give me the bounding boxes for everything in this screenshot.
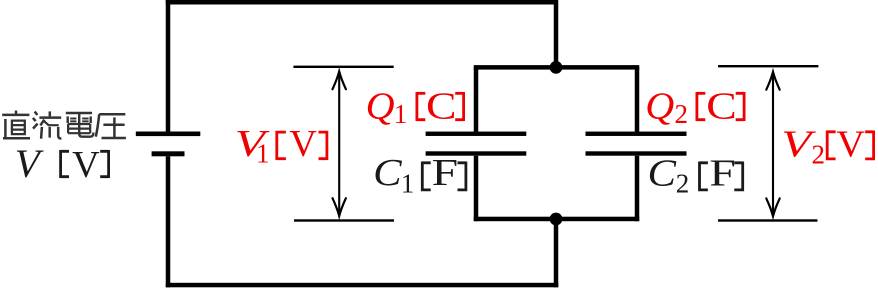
V1 arrowhead up	[333, 71, 346, 89]
capacitor C1 top plate	[426, 132, 527, 136]
bracket ] of V1[V]	[319, 131, 327, 160]
wire left upper (battery to top rail)	[166, 0, 171, 132]
bracket ] of C1[F]	[458, 162, 466, 192]
V1 arrowhead down	[333, 198, 346, 216]
svg-text:1: 1	[256, 139, 270, 169]
node A junction dot (top)	[550, 61, 563, 74]
wire bottom drop (node B to bottom rail)	[554, 219, 559, 287]
svg-text:C: C	[373, 152, 402, 194]
svg-text:Q: Q	[366, 86, 395, 128]
battery V short plate (negative)	[152, 151, 185, 156]
svg-text:F: F	[709, 152, 736, 194]
bracket ] of C2[F]	[734, 162, 742, 192]
svg-text:C: C	[648, 152, 677, 194]
wire capacitor bank top bus	[474, 65, 640, 70]
V1 double arrow shaft	[338, 73, 340, 215]
node B junction dot (bottom)	[550, 213, 563, 226]
svg-text:2: 2	[812, 139, 826, 169]
bracket [ of Q1[C]	[417, 92, 425, 121]
bracket [ of V [V]	[61, 150, 69, 178]
svg-text:V: V	[72, 144, 100, 186]
svg-text:V: V	[289, 123, 317, 165]
capacitor C2 top plate	[586, 132, 687, 136]
svg-text:Q: Q	[645, 86, 674, 128]
svg-text:1: 1	[401, 168, 415, 198]
battery V long plate (positive)	[136, 132, 201, 137]
svg-text:1: 1	[394, 99, 408, 129]
V2 arrowhead up	[766, 72, 779, 90]
capacitor C2 bottom plate	[586, 151, 687, 155]
bracket [ of V2[V]	[827, 131, 835, 161]
wire C1 lower branch	[474, 156, 479, 222]
svg-text:F: F	[432, 152, 459, 194]
bracket [ of V1[V]	[277, 131, 286, 160]
svg-text:C: C	[706, 86, 737, 128]
bracket ] of V [V]	[100, 150, 108, 178]
wire top drop (top rail to node A)	[554, 5, 559, 68]
svg-text:V: V	[15, 141, 45, 186]
label DC voltage kanji 電	[66, 113, 94, 137]
V1 measurement bottom tick	[294, 219, 394, 221]
V2 measurement top tick	[718, 65, 818, 67]
label DC voltage kanji 直	[2, 111, 30, 139]
svg-text:2: 2	[676, 169, 690, 199]
bracket ] of Q2[C]	[736, 92, 744, 121]
bracket ] of V2[V]	[865, 131, 873, 161]
wire C2 lower branch	[635, 156, 640, 222]
V2 arrowhead down	[766, 198, 779, 216]
V1 measurement top tick	[293, 66, 393, 68]
wire capacitor bank bottom bus	[474, 217, 640, 222]
wire bottom rail	[166, 283, 559, 288]
bracket ] of Q1[C]	[455, 92, 463, 121]
label DC voltage kanji 流	[33, 111, 62, 138]
V2 double arrow shaft	[772, 73, 774, 215]
label DC voltage kanji 圧	[96, 114, 126, 138]
wire C1 upper branch	[474, 67, 479, 132]
bracket [ of C2[F]	[700, 162, 708, 192]
bracket [ of Q2[C]	[697, 92, 705, 121]
V2 measurement bottom tick	[718, 219, 818, 221]
wire top rail	[166, 0, 559, 5]
svg-text:C: C	[426, 86, 457, 128]
svg-text:2: 2	[675, 99, 689, 129]
wire left lower (battery to bottom rail)	[166, 156, 171, 287]
capacitor C1 bottom plate	[426, 151, 527, 155]
bracket [ of C1[F]	[422, 162, 430, 192]
svg-text:V: V	[836, 123, 865, 165]
wire C2 upper branch	[635, 67, 640, 132]
